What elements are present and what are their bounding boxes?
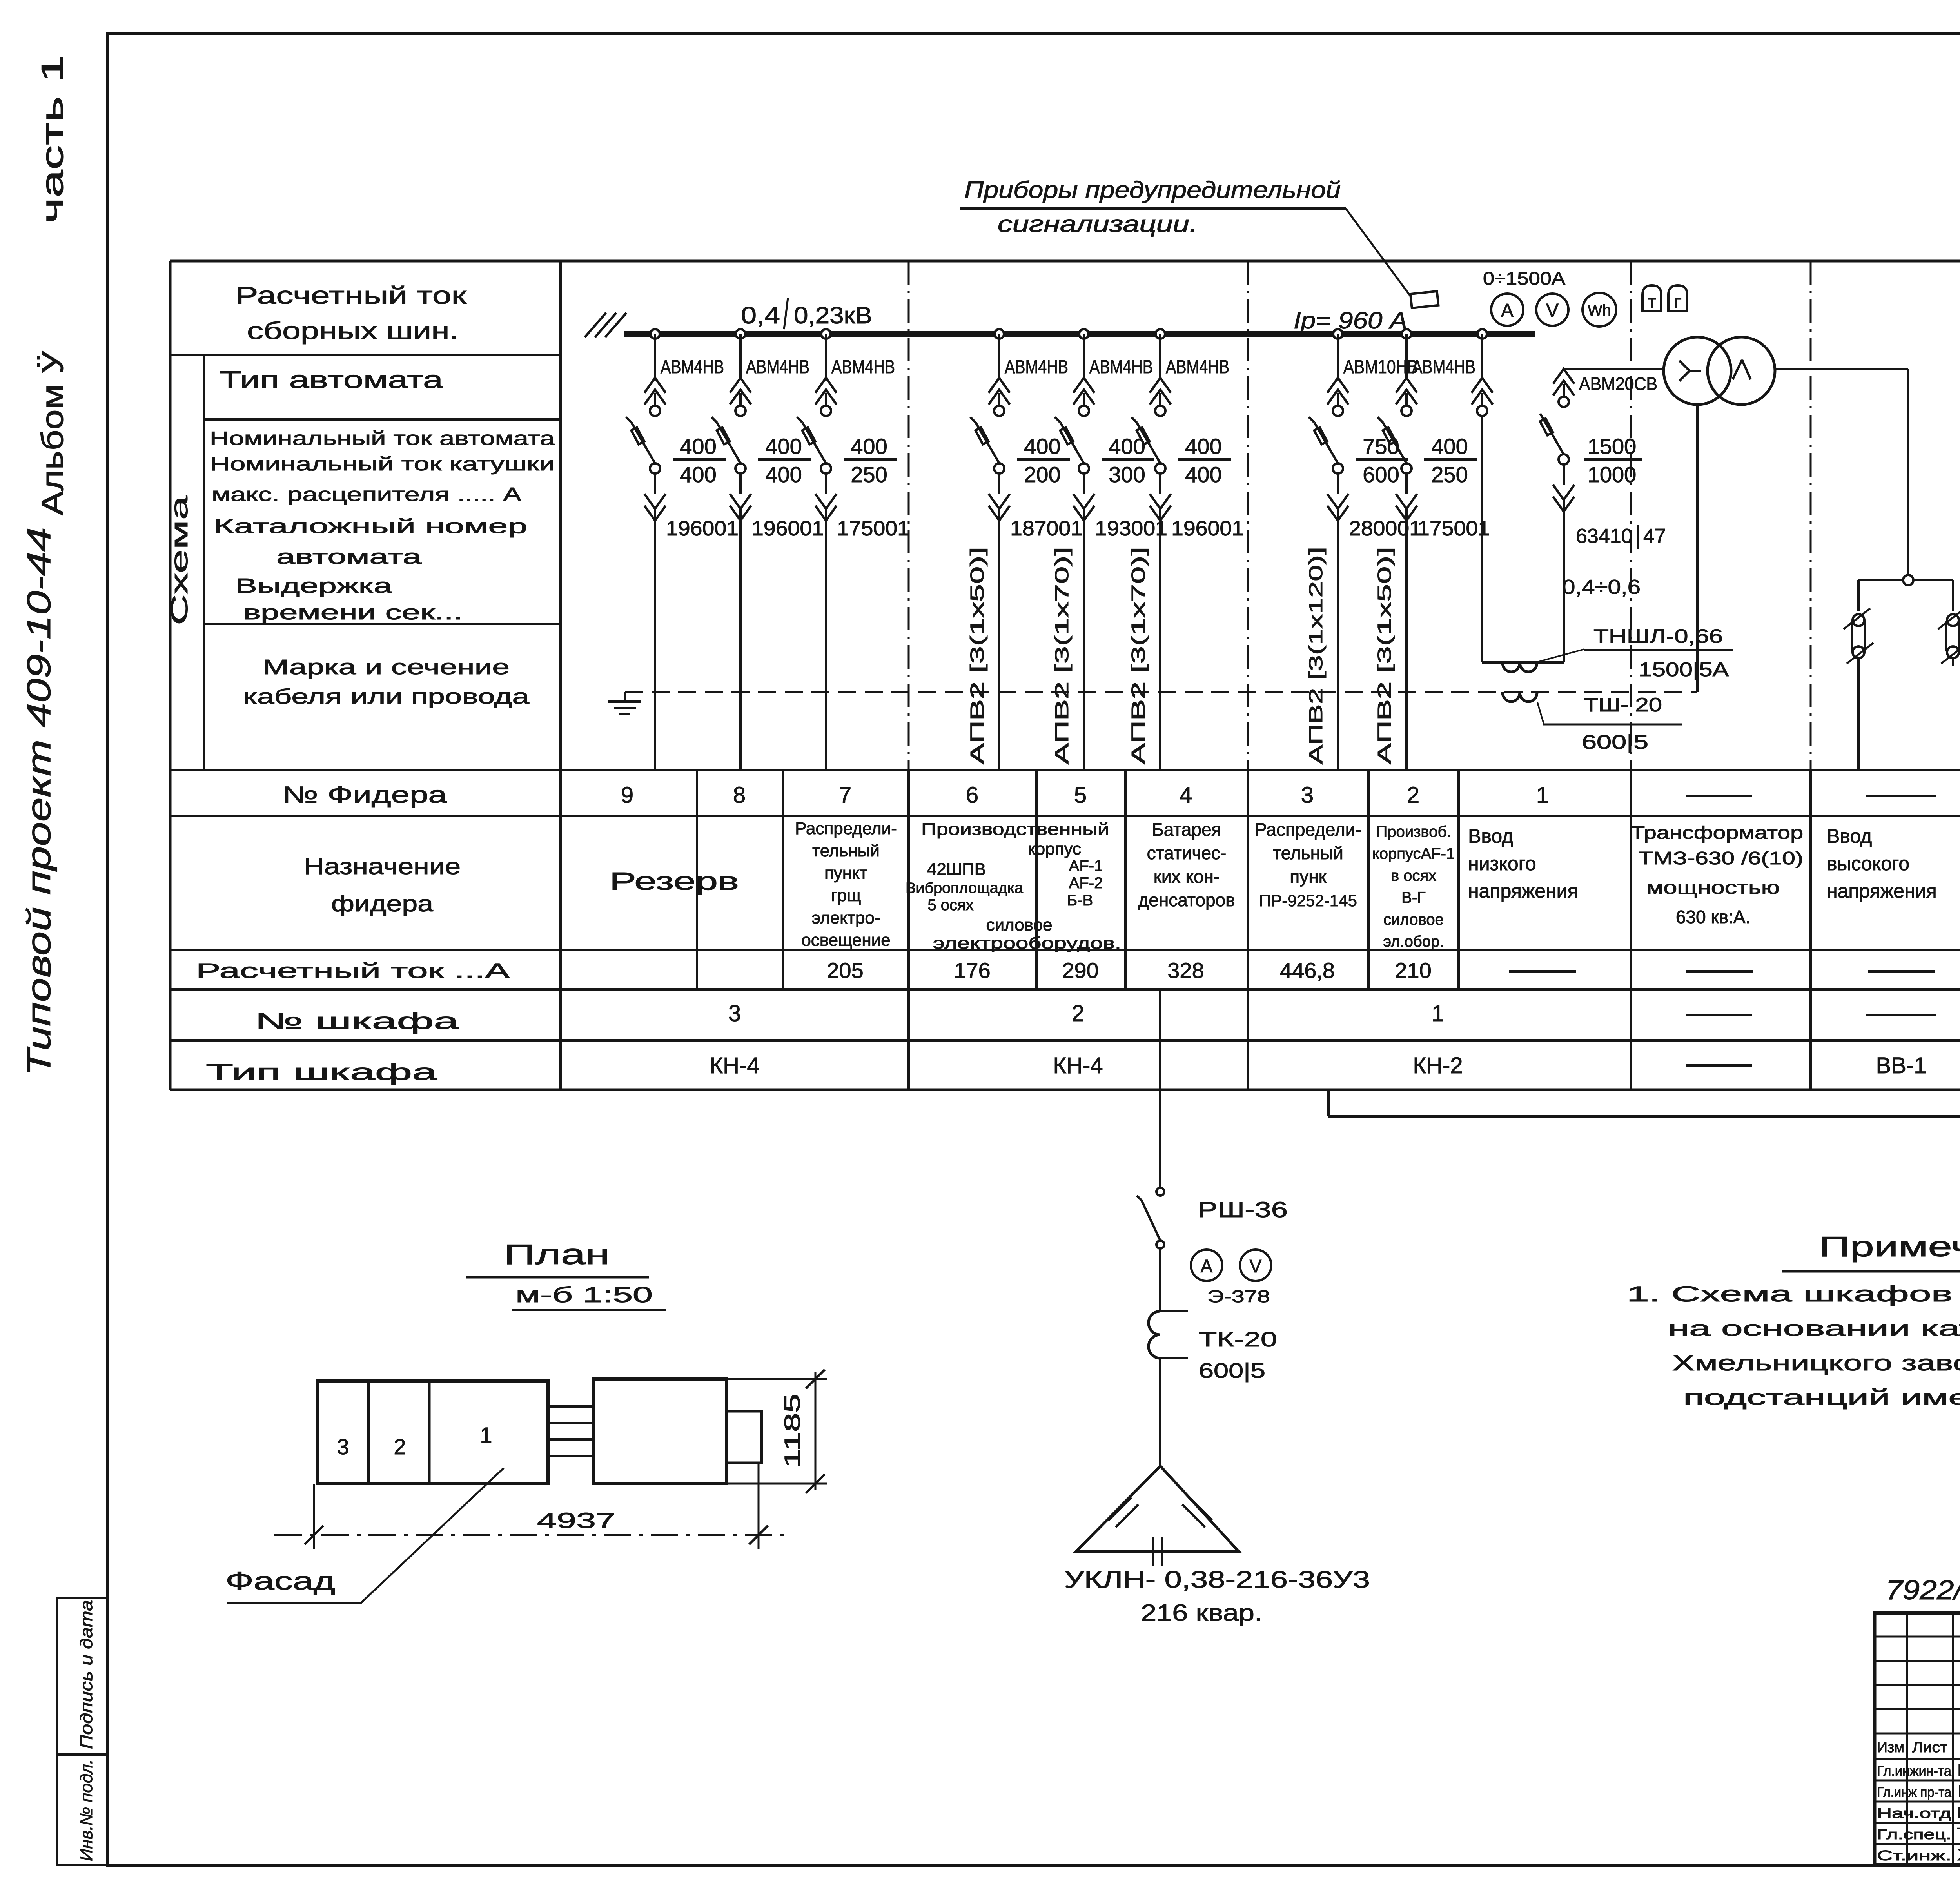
- svg-text:328: 328: [1167, 958, 1204, 983]
- svg-text:5 осях: 5 осях: [927, 896, 973, 914]
- svg-text:АВМ4НВ: АВМ4НВ: [831, 357, 895, 377]
- svg-text:0,4: 0,4: [741, 302, 780, 328]
- svg-text:Альбом Ӱ: Альбом Ӱ: [35, 350, 69, 515]
- svg-text:Хмельницкого завода т: Хмельницкого завода трансформаторных: [1672, 1350, 1960, 1375]
- svg-text:4937: 4937: [537, 1508, 615, 1533]
- svg-text:1500: 1500: [1588, 434, 1637, 459]
- svg-text:Примечание:: Примечание:: [1819, 1231, 1960, 1263]
- svg-text:Марка и сечение: Марка и сечение: [263, 655, 510, 679]
- svg-text:освещение: освещение: [801, 931, 890, 950]
- svg-text:Батарея: Батарея: [1152, 819, 1221, 840]
- svg-text:Производственный: Производственный: [921, 820, 1109, 839]
- svg-text:Гузенко: Гузенко: [1957, 1761, 1960, 1779]
- svg-text:Инв.№ подл.: Инв.№ подл.: [77, 1759, 96, 1861]
- svg-text:на основании каталога: на основании каталога 03.06.26 -77: [1668, 1316, 1960, 1341]
- svg-text:времени сек...: времени сек...: [243, 601, 463, 624]
- svg-text:ПР-9252-145: ПР-9252-145: [1259, 891, 1357, 910]
- svg-text:АF-1: АF-1: [1069, 857, 1103, 875]
- svg-text:ТМЗ-630 /6(10): ТМЗ-630 /6(10): [1639, 848, 1803, 868]
- svg-text:400: 400: [1185, 434, 1221, 459]
- svg-text:Тип шкафа: Тип шкафа: [206, 1060, 437, 1085]
- svg-text:7: 7: [839, 782, 851, 808]
- svg-text:187001: 187001: [1010, 517, 1083, 540]
- svg-text:Лист: Лист: [1912, 1739, 1947, 1756]
- svg-text:АВМ4НВ: АВМ4НВ: [746, 357, 809, 377]
- svg-text:РШ-36: РШ-36: [1198, 1197, 1288, 1222]
- svg-text:300: 300: [1109, 462, 1145, 487]
- svg-text:2: 2: [394, 1434, 406, 1459]
- svg-text:пунк: пунк: [1290, 866, 1327, 887]
- svg-text:400: 400: [765, 462, 802, 487]
- svg-text:АПВ2 [3(1x70)]: АПВ2 [3(1x70)]: [1052, 547, 1073, 764]
- svg-text:АПВ2 [3(1x70)]: АПВ2 [3(1x70)]: [1128, 547, 1149, 764]
- svg-text:Нач.отд: Нач.отд: [1877, 1805, 1951, 1821]
- svg-text:сигнализации.: сигнализации.: [998, 211, 1198, 237]
- svg-text:подстанций имени 50-лет: подстанций имени 50-летия СССР.: [1683, 1385, 1960, 1410]
- svg-text:196001: 196001: [666, 517, 739, 540]
- svg-text:630 кв:А.: 630 кв:А.: [1676, 907, 1750, 927]
- svg-text:250: 250: [851, 462, 887, 487]
- svg-text:Каталожный номер: Каталожный номер: [214, 515, 527, 538]
- svg-text:400: 400: [1185, 462, 1221, 487]
- svg-text:Расчетный ток ...А: Расчетный ток ...А: [196, 959, 510, 983]
- svg-text:400: 400: [1431, 434, 1468, 459]
- svg-text:63410: 63410: [1576, 525, 1633, 548]
- svg-text:2: 2: [1407, 782, 1419, 808]
- svg-text:электро-: электро-: [811, 908, 880, 927]
- svg-text:часть 1: часть 1: [35, 55, 69, 223]
- svg-text:196001: 196001: [751, 517, 824, 540]
- svg-text:м-б 1:50: м-б 1:50: [515, 1282, 653, 1307]
- svg-text:В-Г: В-Г: [1401, 889, 1426, 906]
- svg-text:ТШ- 20: ТШ- 20: [1584, 694, 1662, 716]
- svg-text:АПВ2 [3(1x50)]: АПВ2 [3(1x50)]: [967, 547, 988, 764]
- svg-text:АВМ20СВ: АВМ20СВ: [1579, 374, 1657, 394]
- svg-text:0÷1500А: 0÷1500А: [1483, 268, 1565, 289]
- svg-text:фидера: фидера: [331, 891, 434, 916]
- svg-text:Расчетный ток: Расчетный ток: [235, 282, 467, 309]
- svg-text:196001: 196001: [1171, 517, 1244, 540]
- svg-text:№ Фидера: № Фидера: [282, 782, 447, 808]
- svg-text:3: 3: [728, 1001, 741, 1026]
- svg-text:автомата: автомата: [276, 546, 421, 568]
- svg-text:V: V: [1546, 300, 1559, 321]
- svg-text:Произвоб.: Произвоб.: [1376, 823, 1451, 840]
- svg-text:6: 6: [966, 782, 978, 808]
- svg-text:ких кон-: ких кон-: [1154, 866, 1220, 887]
- svg-text:КН-4: КН-4: [710, 1053, 759, 1078]
- svg-text:400: 400: [680, 462, 716, 487]
- svg-text:АВМ4НВ: АВМ4НВ: [1412, 357, 1475, 377]
- svg-text:7922/9: 7922/9: [1886, 1575, 1960, 1605]
- svg-text:АВМ4НВ: АВМ4НВ: [1089, 357, 1153, 377]
- svg-text:205: 205: [827, 958, 863, 983]
- svg-text:8: 8: [733, 782, 746, 808]
- svg-text:42ШПВ: 42ШПВ: [927, 860, 986, 879]
- svg-text:силовое: силовое: [986, 915, 1052, 934]
- svg-text:ТК-20: ТК-20: [1199, 1328, 1277, 1351]
- svg-text:Гл.инж пр-та: Гл.инж пр-та: [1877, 1784, 1952, 1800]
- svg-text:Трансформатор: Трансформатор: [1631, 822, 1803, 843]
- svg-text:электрооборудов.: электрооборудов.: [933, 934, 1121, 952]
- svg-text:АВМ4НВ: АВМ4НВ: [1166, 357, 1229, 377]
- svg-text:Кувшинский: Кувшинский: [1957, 1803, 1960, 1822]
- svg-text:Выдержка: Выдержка: [235, 575, 392, 597]
- svg-text:Г: Г: [1674, 296, 1681, 311]
- svg-text:193001: 193001: [1095, 517, 1167, 540]
- svg-text:Распредели-: Распредели-: [1255, 819, 1361, 840]
- svg-text:Э-378: Э-378: [1207, 1287, 1270, 1306]
- svg-text:Номинальный ток автомата: Номинальный ток автомата: [210, 428, 555, 449]
- svg-text:176: 176: [954, 958, 990, 983]
- svg-text:5: 5: [1074, 782, 1087, 808]
- svg-text:400: 400: [765, 434, 802, 459]
- svg-text:№ шкафа: № шкафа: [255, 1009, 459, 1034]
- svg-text:Туркин: Туркин: [1957, 1824, 1960, 1843]
- svg-text:Назначение: Назначение: [304, 854, 461, 879]
- svg-text:47: 47: [1643, 525, 1666, 548]
- svg-text:АПВ2 [3(1x120)]: АПВ2 [3(1x120)]: [1306, 547, 1327, 764]
- svg-text:План: План: [504, 1239, 610, 1270]
- svg-text:1185: 1185: [780, 1394, 804, 1468]
- svg-text:Гл.спец.: Гл.спец.: [1877, 1826, 1951, 1842]
- svg-text:Гл.инжин-та: Гл.инжин-та: [1877, 1763, 1952, 1779]
- svg-text:400: 400: [680, 434, 716, 459]
- svg-text:446,8: 446,8: [1280, 958, 1335, 983]
- svg-text:УКЛН- 0,38-216-36У3: УКЛН- 0,38-216-36У3: [1064, 1566, 1370, 1593]
- svg-text:АВМ4НВ: АВМ4НВ: [1005, 357, 1068, 377]
- svg-text:Распредели-: Распредели-: [795, 819, 897, 838]
- svg-text:Схема: Схема: [166, 495, 192, 625]
- svg-text:Ввод: Ввод: [1827, 825, 1872, 847]
- svg-text:Ввод: Ввод: [1468, 825, 1513, 847]
- svg-text:напряжения: напряжения: [1827, 880, 1937, 902]
- svg-text:Подпись и дата: Подпись и дата: [77, 1600, 96, 1749]
- svg-text:3: 3: [1301, 782, 1314, 808]
- svg-text:пункт: пункт: [824, 864, 867, 883]
- svg-text:А: А: [1501, 300, 1514, 321]
- svg-text:175001: 175001: [837, 517, 909, 540]
- svg-text:V: V: [1250, 1256, 1262, 1276]
- svg-text:400: 400: [1024, 434, 1060, 459]
- svg-text:ТНШЛ-0,66: ТНШЛ-0,66: [1593, 625, 1723, 647]
- svg-text:корпус: корпус: [1028, 839, 1081, 858]
- svg-text:216 квар.: 216 квар.: [1141, 1600, 1262, 1626]
- svg-text:статичес-: статичес-: [1147, 843, 1227, 863]
- svg-text:Приборы предупредительной: Приборы предупредительной: [964, 177, 1341, 203]
- svg-text:тельный: тельный: [812, 841, 880, 860]
- svg-text:600|5: 600|5: [1199, 1359, 1265, 1383]
- svg-text:Тип автомата: Тип автомата: [220, 367, 443, 394]
- svg-text:Резерв: Резерв: [610, 867, 739, 895]
- svg-text:1: 1: [480, 1423, 492, 1447]
- svg-text:тельный: тельный: [1273, 843, 1343, 863]
- svg-text:денсаторов: денсаторов: [1138, 890, 1235, 910]
- svg-text:Виброплощадка: Виброплощадка: [906, 880, 1024, 896]
- svg-text:АF-2: АF-2: [1069, 875, 1103, 892]
- svg-text:Wh: Wh: [1588, 302, 1611, 319]
- svg-text:А: А: [1201, 1256, 1213, 1276]
- svg-text:АВМ4НВ: АВМ4НВ: [661, 357, 724, 377]
- svg-text:3: 3: [337, 1434, 349, 1459]
- svg-text:1. Схема шкафов НН: 1. Схема шкафов НН составлена: [1627, 1281, 1960, 1306]
- svg-text:200: 200: [1024, 462, 1060, 487]
- svg-text:Т: Т: [1648, 296, 1656, 311]
- svg-text:Ст.инж.: Ст.инж.: [1877, 1847, 1951, 1864]
- svg-text:грщ: грщ: [831, 886, 861, 905]
- svg-text:силовое: силовое: [1383, 911, 1444, 928]
- svg-text:250: 250: [1431, 462, 1468, 487]
- svg-text:АПВ2 [3(1x50)]: АПВ2 [3(1x50)]: [1374, 547, 1395, 764]
- svg-text:1000: 1000: [1588, 462, 1637, 487]
- svg-text:напряжения: напряжения: [1468, 880, 1578, 902]
- svg-text:КН-2: КН-2: [1413, 1053, 1463, 1078]
- svg-text:Б-В: Б-В: [1067, 892, 1093, 909]
- svg-text:2: 2: [1072, 1001, 1084, 1026]
- svg-text:низкого: низкого: [1468, 853, 1536, 875]
- svg-text:Царев: Царев: [1957, 1782, 1960, 1800]
- svg-text:1: 1: [1536, 782, 1549, 808]
- svg-text:КН-4: КН-4: [1053, 1053, 1103, 1078]
- svg-text:210: 210: [1395, 958, 1431, 983]
- svg-text:9: 9: [621, 782, 633, 808]
- svg-text:290: 290: [1062, 958, 1098, 983]
- svg-text:600|5: 600|5: [1582, 731, 1648, 753]
- svg-text:0,23кВ: 0,23кВ: [794, 302, 872, 328]
- svg-text:эл.обор.: эл.обор.: [1383, 933, 1444, 950]
- svg-text:1: 1: [1432, 1001, 1444, 1026]
- svg-text:Iр= 960 А: Iр= 960 А: [1294, 307, 1407, 334]
- svg-text:175001: 175001: [1417, 517, 1490, 540]
- svg-text:кабеля или провода: кабеля или провода: [243, 685, 530, 708]
- svg-text:сборных шин.: сборных шин.: [247, 318, 459, 345]
- svg-text:0,4÷0,6: 0,4÷0,6: [1562, 576, 1641, 599]
- svg-text:280001: 280001: [1349, 517, 1421, 540]
- svg-text:в осях: в осях: [1391, 867, 1436, 884]
- svg-text:Типовой проект 409-10-44: Типовой проект 409-10-44: [20, 527, 57, 1076]
- svg-text:Хейфец: Хейфец: [1957, 1845, 1960, 1864]
- svg-text:Изм: Изм: [1877, 1739, 1904, 1756]
- svg-text:мощностью: мощностью: [1646, 877, 1780, 898]
- svg-text:Номинальный ток катушки: Номинальный ток катушки: [210, 454, 555, 475]
- svg-text:400: 400: [851, 434, 887, 459]
- svg-text:1500|5А: 1500|5А: [1639, 659, 1729, 680]
- svg-text:макс. расцепителя ..... А: макс. расцепителя ..... А: [212, 484, 521, 505]
- svg-text:Фасад: Фасад: [225, 1567, 335, 1595]
- svg-text:высокого: высокого: [1827, 853, 1909, 875]
- svg-text:4: 4: [1180, 782, 1192, 808]
- svg-text:600: 600: [1363, 462, 1399, 487]
- svg-text:корпусАF-1: корпусАF-1: [1372, 845, 1455, 862]
- svg-text:ВВ-1: ВВ-1: [1876, 1053, 1927, 1078]
